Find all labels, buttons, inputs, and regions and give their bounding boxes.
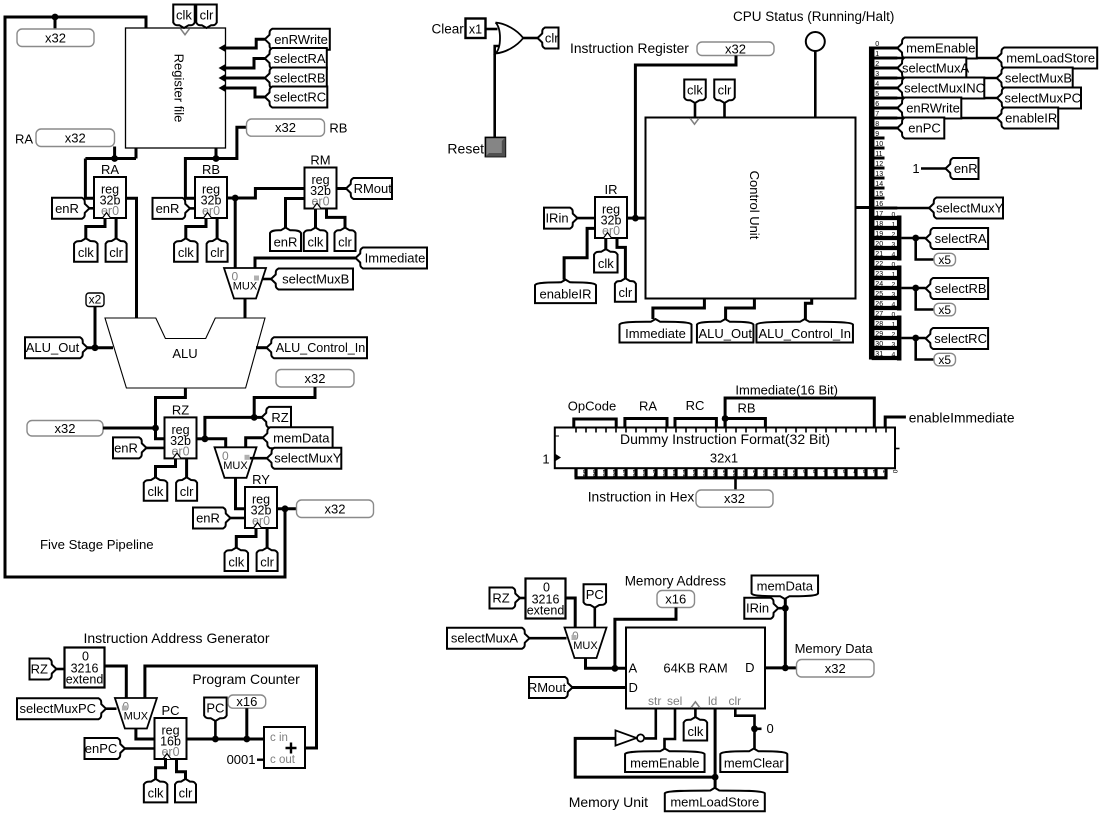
svg-text:1: 1 — [912, 161, 919, 176]
svg-text:3: 3 — [892, 342, 896, 349]
svg-text:memData: memData — [757, 579, 814, 594]
svg-text:x32: x32 — [55, 421, 76, 436]
svg-text:clr: clr — [718, 83, 732, 98]
svg-text:RZ: RZ — [31, 662, 48, 677]
svg-text:Instruction in Hex: Instruction in Hex — [588, 490, 695, 505]
svg-text:enableImmediate: enableImmediate — [909, 411, 1015, 426]
svg-text:RZ: RZ — [492, 591, 509, 606]
svg-text:selectMuxB: selectMuxB — [1005, 71, 1072, 86]
svg-text:clr: clr — [338, 234, 352, 249]
svg-text:18: 18 — [875, 221, 883, 228]
svg-text:0: 0 — [892, 212, 896, 219]
svg-text:selectMuxPC: selectMuxPC — [19, 701, 96, 716]
svg-text:x32: x32 — [725, 41, 746, 56]
svg-text:11: 11 — [875, 151, 882, 158]
svg-text:1: 1 — [892, 222, 896, 229]
svg-text:0: 0 — [892, 312, 896, 319]
svg-text:17: 17 — [875, 211, 883, 218]
svg-text:selectMuxINC: selectMuxINC — [904, 81, 985, 96]
svg-text:D: D — [745, 660, 754, 675]
svg-text:c in: c in — [270, 732, 288, 744]
svg-text:MUX: MUX — [223, 460, 248, 472]
svg-text:27: 27 — [875, 311, 883, 318]
svg-text:clk: clk — [148, 484, 164, 499]
svg-text:memClear: memClear — [724, 755, 785, 770]
svg-text:RZ: RZ — [172, 402, 189, 417]
svg-text:24: 24 — [875, 281, 883, 288]
svg-text:clk: clk — [308, 234, 324, 249]
svg-text:Five Stage Pipeline: Five Stage Pipeline — [40, 537, 154, 552]
svg-text:selectRB: selectRB — [935, 281, 987, 296]
svg-text:clr: clr — [210, 245, 224, 260]
svg-text:Reset: Reset — [447, 141, 484, 157]
svg-text:23: 23 — [875, 271, 883, 278]
svg-text:OpCode: OpCode — [568, 399, 616, 414]
svg-text:21: 21 — [875, 251, 883, 258]
svg-text:selectMuxY: selectMuxY — [936, 201, 1004, 216]
svg-text:clr: clr — [260, 554, 274, 569]
svg-text:x16: x16 — [236, 694, 257, 709]
svg-text:RB: RB — [202, 162, 220, 177]
svg-text:selectMuxA: selectMuxA — [451, 631, 519, 646]
svg-text:enR: enR — [196, 511, 220, 526]
svg-text:extend: extend — [527, 604, 565, 618]
svg-text:enPC: enPC — [908, 121, 941, 136]
svg-text:clr: clr — [180, 484, 194, 499]
svg-text:clk: clk — [687, 724, 703, 739]
svg-text:enRWrite: enRWrite — [906, 101, 960, 116]
svg-text:enableIR: enableIR — [539, 286, 591, 301]
svg-text:D: D — [629, 680, 638, 695]
svg-text:MUX: MUX — [233, 281, 258, 293]
svg-text:memEnable: memEnable — [906, 41, 975, 56]
svg-text:15: 15 — [875, 191, 883, 198]
svg-text:30: 30 — [875, 341, 883, 348]
svg-text:IR: IR — [605, 182, 618, 197]
svg-text:RA: RA — [639, 399, 657, 414]
svg-text:ALU_Out: ALU_Out — [26, 340, 80, 355]
svg-text:10: 10 — [875, 141, 883, 148]
svg-text:selectRA: selectRA — [935, 231, 987, 246]
svg-text:1: 1 — [892, 322, 896, 329]
svg-text:sel: sel — [667, 694, 682, 708]
svg-text:clr: clr — [729, 694, 742, 708]
svg-text:RA: RA — [101, 162, 119, 177]
svg-text:RY: RY — [252, 472, 270, 487]
svg-text:A: A — [629, 661, 638, 676]
svg-text:clk: clk — [178, 245, 194, 260]
svg-text:Immediate: Immediate — [625, 326, 686, 341]
svg-text:Memory Data: Memory Data — [795, 641, 874, 656]
svg-text:enRWrite: enRWrite — [274, 32, 328, 47]
svg-text:13: 13 — [875, 171, 883, 178]
svg-text:14: 14 — [875, 181, 883, 188]
svg-text:RM: RM — [310, 153, 330, 168]
svg-text:Register file: Register file — [172, 54, 187, 123]
svg-text:PC: PC — [161, 703, 179, 718]
svg-text:enPC: enPC — [85, 741, 118, 756]
svg-text:selectRA: selectRA — [274, 51, 326, 66]
svg-text:clr: clr — [619, 285, 633, 300]
svg-text:x32: x32 — [825, 661, 846, 676]
svg-text:x5: x5 — [938, 303, 951, 317]
svg-text:clk: clk — [176, 8, 192, 23]
svg-text:clk: clk — [687, 83, 703, 98]
svg-text:clk: clk — [228, 554, 244, 569]
svg-text:IRin: IRin — [746, 601, 769, 616]
svg-text:x32: x32 — [325, 501, 346, 516]
svg-text:CPU Status (Running/Halt): CPU Status (Running/Halt) — [733, 9, 894, 24]
svg-text:MUX: MUX — [573, 640, 598, 652]
svg-text:selectMuxPC: selectMuxPC — [1004, 91, 1081, 106]
svg-text:memData: memData — [273, 430, 330, 445]
svg-text:selectMuxA: selectMuxA — [902, 61, 970, 76]
svg-text:28: 28 — [875, 321, 883, 328]
svg-text:2: 2 — [892, 332, 896, 339]
svg-text:31: 31 — [875, 351, 883, 358]
svg-text:Clear: Clear — [432, 22, 465, 37]
svg-text:x5: x5 — [938, 353, 951, 367]
svg-text:x2: x2 — [89, 293, 102, 307]
svg-text:memEnable: memEnable — [630, 755, 699, 770]
svg-text:PC: PC — [586, 587, 604, 602]
svg-text:clr: clr — [200, 8, 214, 23]
svg-text:selectRC: selectRC — [934, 331, 987, 346]
svg-text:ld: ld — [708, 694, 717, 708]
svg-text:memLoadStore: memLoadStore — [1006, 51, 1095, 66]
svg-text:IRin: IRin — [545, 211, 568, 226]
svg-text:2: 2 — [892, 232, 896, 239]
svg-text:clk: clk — [598, 256, 614, 271]
svg-text:x32: x32 — [275, 120, 296, 135]
svg-text:4: 4 — [892, 352, 896, 359]
svg-text:RB: RB — [737, 401, 755, 416]
svg-text:ALU_Out: ALU_Out — [698, 326, 752, 341]
svg-text:clk: clk — [148, 786, 164, 801]
svg-text:1: 1 — [542, 452, 549, 467]
svg-text:RB: RB — [329, 121, 347, 136]
svg-text:enR: enR — [274, 234, 298, 249]
svg-text:12: 12 — [875, 161, 883, 168]
svg-text:3: 3 — [892, 242, 896, 249]
svg-text:RZ: RZ — [271, 410, 288, 425]
svg-text:RMout: RMout — [528, 680, 567, 695]
svg-text:selectMuxY: selectMuxY — [274, 451, 342, 466]
svg-text:enR: enR — [954, 161, 978, 176]
svg-text:26: 26 — [875, 301, 883, 308]
svg-text:MUX: MUX — [124, 711, 149, 723]
svg-text:3: 3 — [892, 292, 896, 299]
svg-text:clk: clk — [78, 245, 94, 260]
svg-text:RC: RC — [686, 398, 705, 413]
svg-text:x16: x16 — [665, 592, 686, 607]
svg-text:25: 25 — [875, 291, 883, 298]
svg-text:enR: enR — [55, 201, 79, 216]
svg-text:ALU: ALU — [172, 346, 197, 361]
svg-text:4: 4 — [892, 252, 896, 259]
svg-text:x32: x32 — [65, 130, 86, 145]
svg-text:selectRC: selectRC — [273, 90, 326, 105]
svg-text:Program Counter: Program Counter — [192, 671, 300, 687]
svg-text:x5: x5 — [938, 253, 951, 267]
svg-text:enR: enR — [156, 201, 180, 216]
svg-text:Instruction Address Generator: Instruction Address Generator — [84, 630, 270, 646]
svg-text:0: 0 — [891, 470, 898, 474]
svg-text:0001: 0001 — [227, 752, 256, 767]
svg-text:ALU_Control_In: ALU_Control_In — [758, 326, 851, 341]
svg-text:Immediate: Immediate — [365, 251, 426, 266]
svg-text:str: str — [648, 694, 661, 708]
svg-text:Dummy Instruction Format(32 Bi: Dummy Instruction Format(32 Bit) — [620, 431, 830, 447]
svg-text:enR: enR — [114, 440, 138, 455]
svg-text:Immediate(16 Bit): Immediate(16 Bit) — [735, 383, 838, 398]
svg-text:ALU_Control_In: ALU_Control_In — [276, 341, 366, 355]
svg-text:32x1: 32x1 — [710, 451, 738, 466]
svg-text:extend: extend — [66, 673, 104, 687]
svg-text:0: 0 — [892, 262, 896, 269]
svg-text:Instruction Register: Instruction Register — [570, 41, 689, 56]
svg-text:4: 4 — [892, 302, 896, 309]
svg-text:19: 19 — [875, 231, 883, 238]
svg-text:Memory Unit: Memory Unit — [569, 794, 648, 810]
svg-text:memLoadStore: memLoadStore — [670, 795, 759, 810]
svg-text:9: 9 — [875, 131, 879, 138]
svg-text:x32: x32 — [45, 30, 66, 45]
svg-text:RMout: RMout — [354, 181, 393, 196]
svg-text:x32: x32 — [305, 371, 326, 386]
svg-text:clr: clr — [109, 245, 123, 260]
svg-text:0: 0 — [767, 721, 774, 736]
svg-text:clr: clr — [545, 31, 559, 46]
svg-text:Control Unit: Control Unit — [747, 171, 762, 240]
svg-text:64KB RAM: 64KB RAM — [663, 661, 727, 676]
svg-text:selectMuxB: selectMuxB — [282, 272, 349, 287]
svg-text:1: 1 — [892, 272, 896, 279]
svg-text:22: 22 — [875, 261, 883, 268]
svg-text:Memory Address: Memory Address — [625, 574, 727, 589]
svg-text:20: 20 — [875, 241, 883, 248]
svg-text:2: 2 — [892, 282, 896, 289]
svg-text:clr: clr — [179, 786, 193, 801]
svg-text:RA: RA — [15, 132, 33, 147]
svg-text:enableIR: enableIR — [1005, 111, 1057, 126]
svg-text:PC: PC — [206, 701, 224, 716]
svg-text:29: 29 — [875, 331, 883, 338]
svg-text:selectRB: selectRB — [274, 71, 326, 86]
svg-text:x1: x1 — [469, 23, 482, 37]
svg-text:c out: c out — [270, 754, 296, 766]
svg-text:x32: x32 — [724, 491, 745, 506]
